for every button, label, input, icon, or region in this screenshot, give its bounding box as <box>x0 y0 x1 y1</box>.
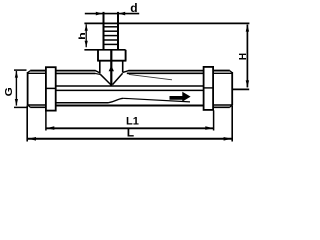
venturi top diverging line right <box>129 74 172 79</box>
throat lower line <box>56 89 203 91</box>
dimension L left arrow <box>28 137 36 141</box>
venturi bottom slope right <box>123 98 190 102</box>
pipe body top edge right segment <box>128 70 203 72</box>
dimension G down arrow <box>15 99 18 106</box>
right male thread end bottom crest <box>213 106 230 108</box>
right male thread end tip face <box>231 72 233 105</box>
boss left side <box>99 61 101 73</box>
left male tip chamfer top <box>28 71 31 73</box>
svg-text:h: h <box>78 32 88 40</box>
funnel right slope <box>113 73 123 84</box>
pipe bore bottom line left <box>56 102 108 104</box>
branch bore centerline <box>110 50 112 86</box>
throat right stub <box>204 87 212 89</box>
right male thread end top crest <box>213 70 230 72</box>
left male thread end bottom root <box>27 104 46 106</box>
right male thread end bottom root <box>213 104 232 106</box>
pipe joint taper upper right <box>123 71 129 73</box>
flow arrow <box>170 92 191 102</box>
dimension H bottom tick <box>233 88 249 90</box>
right hex nut <box>204 67 214 110</box>
left male thread end top root <box>27 72 46 74</box>
dimension G top tick <box>14 69 27 71</box>
left male thread end tip face <box>27 72 29 105</box>
dimension h line <box>85 24 87 47</box>
left male thread end top crest <box>30 70 46 72</box>
dimension d line <box>85 13 139 15</box>
branch nozzle thread hatch 1 <box>104 26 117 28</box>
dimension d right arrow <box>118 12 125 16</box>
dimension L right arrow <box>224 137 232 141</box>
pipe body bottom edge <box>56 104 204 106</box>
branch nozzle right edge <box>117 12 119 50</box>
branch nozzle thread hatch 2 <box>104 30 117 32</box>
dimension L right extension <box>231 105 233 141</box>
svg-text:H: H <box>238 53 249 60</box>
branch nozzle thread hatch 4 <box>104 39 117 41</box>
dimension h down arrow <box>85 41 88 48</box>
dimension L1 left extension <box>45 112 47 131</box>
dimension L1 line <box>46 127 213 129</box>
dimension L1 left arrow <box>47 126 55 130</box>
pipe joint taper lower left <box>95 73 100 74</box>
dimension L1 right arrow <box>205 126 213 130</box>
right male tip chamfer bottom <box>230 105 233 107</box>
dimension G line <box>15 71 17 106</box>
dimension L left extension <box>26 105 28 141</box>
pipe body top edge left segment <box>56 70 96 72</box>
branch nozzle left edge <box>103 12 105 50</box>
left male thread end bottom crest <box>30 106 46 108</box>
tee nut right edge <box>125 50 127 61</box>
throat left stub <box>46 87 56 89</box>
branch bore up arrow <box>109 66 114 72</box>
tee nut left edge <box>97 50 99 61</box>
pipe bore top line left <box>56 72 96 74</box>
right male tip chamfer top <box>230 71 233 73</box>
throat upper line <box>56 85 203 87</box>
dimension h up arrow <box>85 24 88 31</box>
dimension H down arrow <box>246 80 249 87</box>
tee nut top edge with h tick <box>84 49 125 51</box>
branch top extension line (H top reference) <box>84 22 249 24</box>
dimension d left arrow <box>96 12 103 16</box>
left hex nut <box>46 67 56 110</box>
branch nozzle thread hatch 5 <box>104 43 117 45</box>
dimension L1 right extension <box>213 110 215 130</box>
left male tip chamfer bottom <box>28 105 31 107</box>
venturi bottom rise <box>108 98 123 103</box>
dimension H line <box>246 25 248 88</box>
boss right side <box>122 61 124 72</box>
dimension G up arrow <box>15 71 18 78</box>
pipe bore top line right <box>127 72 204 74</box>
tee nut bottom edge <box>97 60 126 62</box>
right male thread end top root <box>213 72 232 74</box>
dimension L line <box>28 138 232 140</box>
dimension G bottom tick <box>14 106 27 108</box>
svg-text:L: L <box>127 126 134 140</box>
funnel left slope <box>100 74 111 85</box>
pipe joint taper upper left <box>95 71 100 73</box>
branch nozzle thread hatch 3 <box>104 35 117 37</box>
svg-text:G: G <box>4 87 15 96</box>
dimension H up arrow <box>246 24 249 31</box>
svg-text:d: d <box>130 1 137 15</box>
